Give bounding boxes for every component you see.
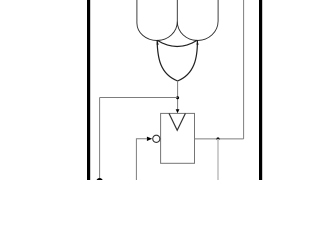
node bottom (clipped junction dot): [96, 178, 103, 185]
clock triangle of U2: [169, 113, 185, 130]
arrowhead at U1 left input corner: [157, 40, 159, 45]
arrowhead into bubble: [147, 137, 152, 141]
wire pale branch down: [217, 139, 219, 180]
arrowhead at U1 right input corner: [196, 40, 198, 45]
gate G2 (right gate, clipped at top): [177, 0, 218, 41]
wire Q output up to top: [243, 0, 245, 139]
wire feedback horizontal: [100, 97, 178, 99]
bus/border thick line left: [87, 0, 90, 180]
bus/border thick line right: [259, 0, 262, 180]
node junction on Q output: [217, 137, 220, 140]
or-gate U1 (pointing down): [157, 40, 197, 81]
wire U1 output down to clock: [177, 81, 179, 110]
inverter bubble on U2 D input: [153, 135, 160, 142]
wire feedback vertical left: [99, 98, 101, 179]
wire Q output right: [195, 138, 244, 140]
arrowhead clock input: [176, 109, 180, 113]
node junction on U1 output: [176, 96, 179, 99]
flip-flop U2 body: [161, 113, 195, 163]
gate G1 (left gate, clipped at top): [137, 0, 177, 41]
wire D input: [136, 139, 147, 180]
